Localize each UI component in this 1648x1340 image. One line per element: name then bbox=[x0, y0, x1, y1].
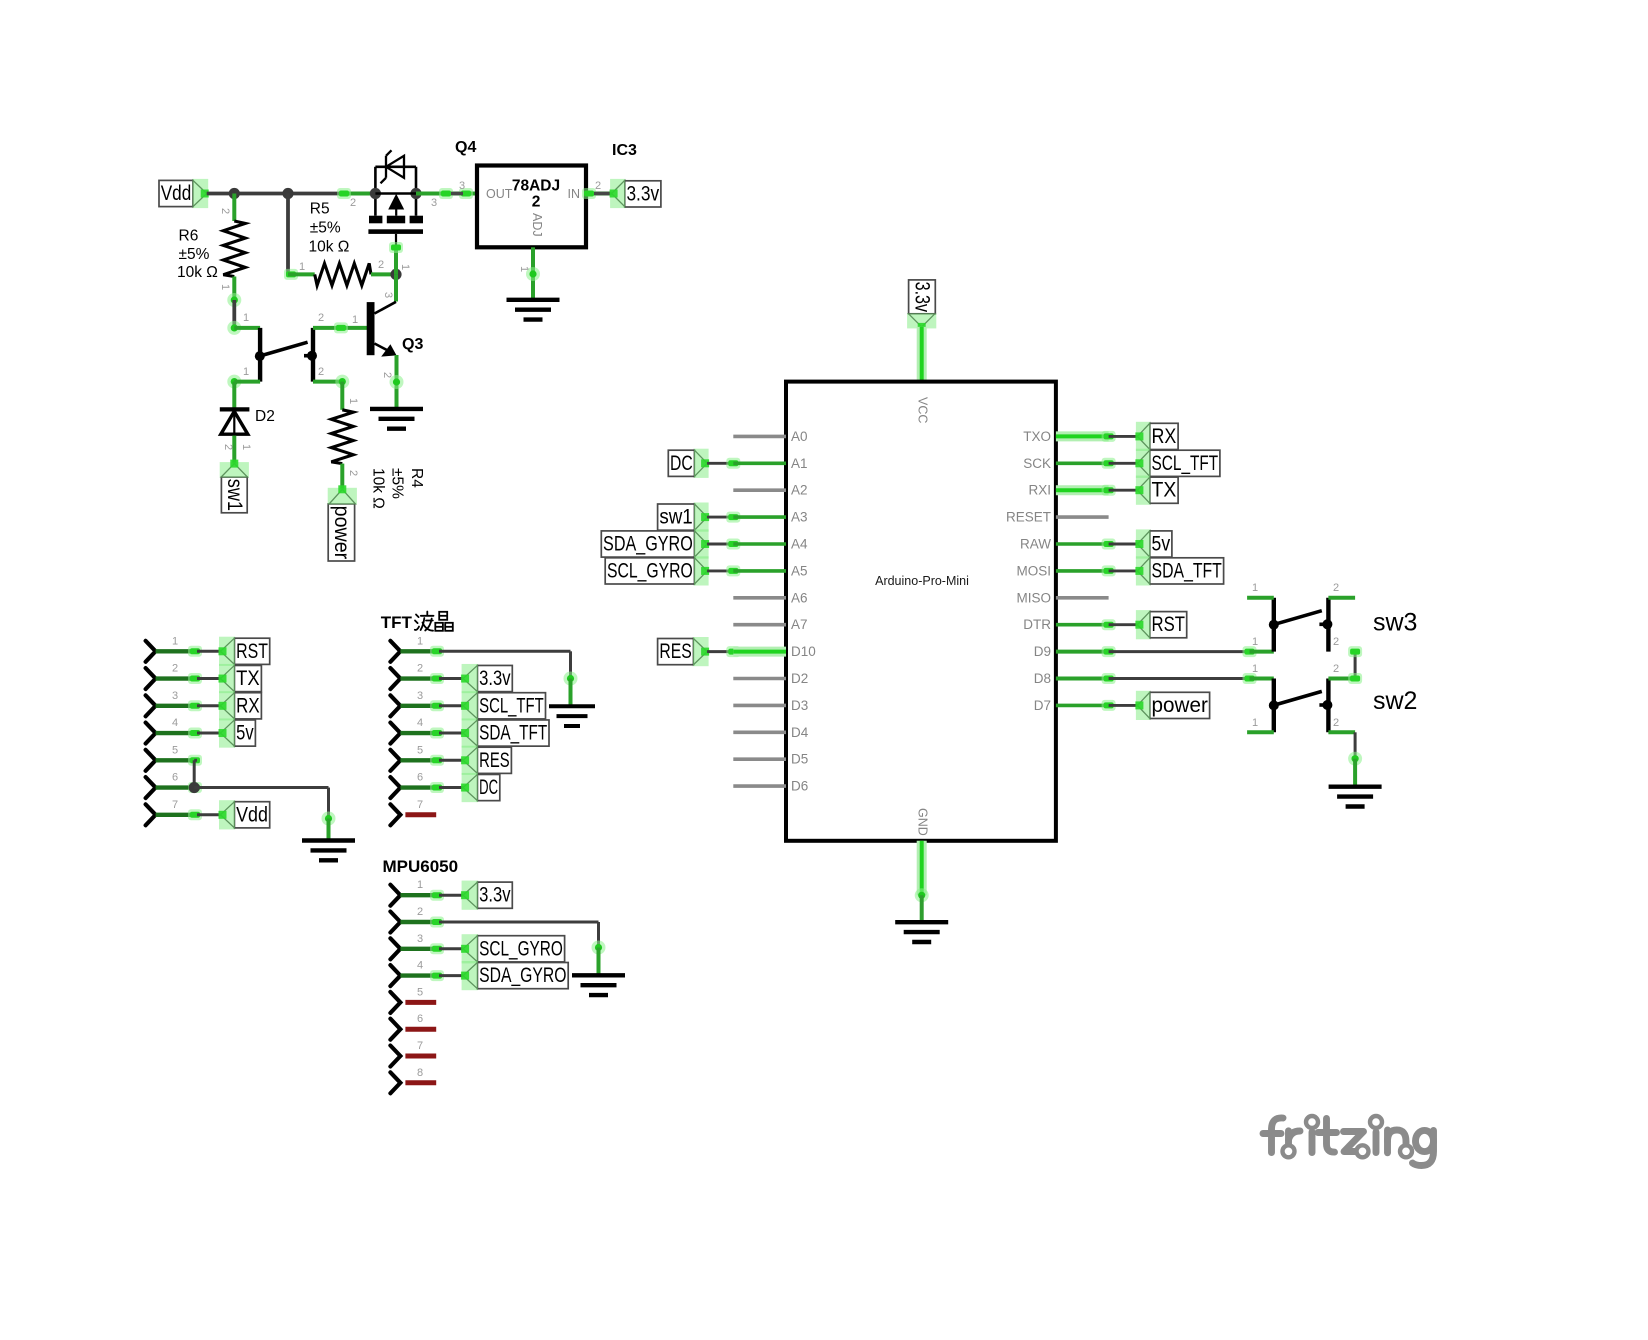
ground U1 GND bbox=[895, 920, 948, 924]
wire D8 to sw2 bbox=[1056, 677, 1109, 681]
resistor R6 bbox=[232, 194, 236, 222]
sw2 stubs bbox=[1328, 677, 1355, 681]
svg-text:5v: 5v bbox=[1152, 533, 1171, 556]
svg-text:SCL_TFT: SCL_TFT bbox=[1152, 452, 1219, 475]
svg-text:2: 2 bbox=[318, 366, 324, 378]
TFT pin 7 bbox=[390, 804, 400, 825]
svg-text:1: 1 bbox=[219, 284, 231, 290]
svg-text:2: 2 bbox=[222, 444, 234, 450]
resistor R4 bbox=[340, 382, 344, 410]
svg-text:DC: DC bbox=[479, 776, 498, 799]
svg-text:1: 1 bbox=[352, 314, 358, 326]
net label RES (U1 left) bbox=[658, 639, 694, 665]
net label SDA_TFT (U1 right) bbox=[1056, 569, 1109, 573]
svg-text:SDA_GYRO: SDA_GYRO bbox=[479, 964, 566, 987]
svg-text:VCC: VCC bbox=[916, 397, 930, 423]
switch sw2 pushbutton bbox=[1272, 679, 1276, 733]
svg-text:2: 2 bbox=[350, 197, 356, 209]
svg-text:OUT: OUT bbox=[486, 187, 513, 201]
svg-text:A3: A3 bbox=[791, 510, 808, 525]
svg-text:2: 2 bbox=[219, 208, 231, 214]
svg-text:A0: A0 bbox=[791, 429, 808, 444]
svg-text:sw1: sw1 bbox=[223, 479, 246, 511]
net label DC (U1 left) bbox=[668, 450, 694, 476]
svg-text:A1: A1 bbox=[791, 456, 808, 471]
svg-text:2: 2 bbox=[318, 312, 324, 324]
svg-text:SCL_GYRO: SCL_GYRO bbox=[607, 559, 693, 582]
net label sw1 (U1 left) bbox=[658, 504, 695, 530]
U1 unconnected left pins bbox=[733, 435, 786, 439]
svg-text:RX: RX bbox=[236, 694, 260, 717]
svg-text:SDA_TFT: SDA_TFT bbox=[1152, 559, 1222, 582]
net label RX (J1) bbox=[197, 704, 221, 707]
svg-text:1: 1 bbox=[240, 444, 252, 450]
TFT pin 2 bbox=[390, 668, 400, 689]
svg-text:3: 3 bbox=[431, 197, 437, 209]
svg-text:IC3: IC3 bbox=[612, 142, 637, 159]
svg-text:5v: 5v bbox=[236, 722, 254, 745]
svg-text:D2: D2 bbox=[791, 671, 808, 686]
svg-text:power: power bbox=[1152, 694, 1208, 717]
net label 3.3v (VCC) bbox=[909, 280, 936, 314]
svg-text:2: 2 bbox=[1333, 636, 1339, 648]
svg-text:2: 2 bbox=[417, 906, 423, 918]
svg-text:RESET: RESET bbox=[1006, 510, 1051, 525]
ground IC3 bbox=[507, 298, 560, 302]
transistor Q3 NPN bbox=[394, 274, 398, 301]
svg-text:D8: D8 bbox=[1034, 671, 1051, 686]
svg-text:RAW: RAW bbox=[1020, 537, 1051, 552]
transistor Q4 (P-MOSFET with zener) bbox=[375, 166, 416, 169]
svg-text:TFT: TFT bbox=[381, 613, 413, 632]
CJK glyph: 晶 bbox=[435, 612, 453, 631]
net label TX (U1 right) bbox=[1056, 485, 1109, 495]
regulator IC3 78ADJ bbox=[477, 166, 586, 248]
svg-text:1: 1 bbox=[1252, 582, 1258, 594]
svg-text:D3: D3 bbox=[791, 698, 808, 713]
svg-text:7: 7 bbox=[417, 1040, 423, 1052]
net label DC (TFT) bbox=[439, 786, 463, 789]
svg-text:7: 7 bbox=[172, 799, 178, 811]
wire IC3 ADJ to ground bbox=[531, 247, 535, 299]
svg-text:2: 2 bbox=[378, 259, 384, 271]
svg-text:5: 5 bbox=[172, 744, 178, 756]
svg-text:sw1: sw1 bbox=[659, 506, 692, 529]
svg-text:1: 1 bbox=[1252, 717, 1258, 729]
svg-text:10k Ω: 10k Ω bbox=[370, 468, 387, 509]
svg-text:4: 4 bbox=[417, 717, 423, 729]
MPU6050 pin 4 bbox=[390, 965, 400, 986]
wire MPU pin2 to ground bbox=[439, 921, 599, 924]
net label power (U1 right) bbox=[1056, 704, 1109, 708]
svg-text:4: 4 bbox=[172, 717, 178, 729]
wire 3.3v to VCC bbox=[917, 327, 927, 382]
svg-text:D10: D10 bbox=[791, 644, 816, 659]
svg-text:±5%: ±5% bbox=[310, 220, 341, 237]
svg-text:2: 2 bbox=[347, 470, 359, 476]
svg-text:D6: D6 bbox=[791, 779, 808, 794]
ground sw2 bbox=[1329, 785, 1382, 789]
TFT pin 4 bbox=[390, 723, 400, 744]
wire sw3 to sw2 bbox=[1354, 652, 1357, 679]
switch sw1 pushbutton bbox=[227, 321, 241, 335]
net label 5v (J1) bbox=[197, 732, 221, 735]
wire U1 GND to ground bbox=[917, 841, 927, 896]
svg-text:D5: D5 bbox=[791, 752, 808, 767]
svg-text:RST: RST bbox=[1152, 613, 1186, 636]
net label 3.3v (TFT) bbox=[439, 677, 463, 680]
net label RST (J1) bbox=[197, 650, 221, 653]
net label SDA_GYRO (U1 left) bbox=[601, 531, 694, 557]
wire R6 to sw1 bbox=[232, 300, 236, 328]
switch sw3 pushbutton bbox=[1272, 598, 1276, 652]
svg-text:ADJ: ADJ bbox=[530, 213, 544, 237]
svg-text:3: 3 bbox=[417, 933, 423, 945]
wire Vdd to Q4 gate rail bbox=[207, 192, 376, 196]
CJK glyph: 液 bbox=[415, 612, 434, 631]
fritzing logo bbox=[1263, 1118, 1434, 1166]
svg-text:10k Ω: 10k Ω bbox=[309, 239, 350, 256]
svg-text:DC: DC bbox=[670, 452, 693, 475]
J1 pin 6 bbox=[146, 777, 156, 798]
TFT pin 3 bbox=[390, 695, 400, 716]
net label SCL_GYRO (MPU6050) bbox=[439, 947, 463, 950]
wire IC3 IN to 3.3v label bbox=[586, 192, 612, 196]
net label SCL_TFT (U1 right) bbox=[1056, 461, 1109, 465]
svg-text:1: 1 bbox=[243, 366, 249, 378]
svg-text:2: 2 bbox=[381, 372, 393, 378]
wire sw1 to R4 bbox=[313, 380, 342, 384]
net label RES (TFT) bbox=[439, 759, 463, 762]
net label sw1 bbox=[221, 477, 247, 513]
wire sw1 to Q3 base bbox=[313, 326, 370, 330]
MPU6050 pin 8 bbox=[390, 1072, 400, 1093]
net label Vdd bbox=[159, 180, 193, 206]
J1 pin 7 bbox=[146, 804, 156, 825]
svg-text:8: 8 bbox=[417, 1067, 423, 1079]
svg-text:5: 5 bbox=[417, 744, 423, 756]
svg-text:7: 7 bbox=[417, 799, 423, 811]
net label power bbox=[328, 504, 354, 561]
svg-text:R4: R4 bbox=[408, 468, 425, 488]
svg-text:Q4: Q4 bbox=[455, 139, 476, 156]
TFT pin 6 bbox=[390, 777, 400, 798]
svg-text:TX: TX bbox=[1152, 479, 1177, 502]
svg-text:3: 3 bbox=[172, 690, 178, 702]
svg-text:TX: TX bbox=[236, 667, 260, 690]
svg-text:1: 1 bbox=[299, 261, 305, 273]
svg-text:RES: RES bbox=[479, 749, 510, 772]
J1 pin 1 bbox=[146, 641, 156, 662]
IC U1 Arduino-Pro-Mini body bbox=[786, 382, 1056, 841]
svg-text:D2: D2 bbox=[255, 408, 275, 425]
junction node Vdd/R6 bbox=[229, 188, 240, 199]
junction node Vdd/R5 bbox=[282, 188, 293, 199]
svg-text:A6: A6 bbox=[791, 590, 808, 605]
svg-text:3: 3 bbox=[417, 690, 423, 702]
svg-text:sw2: sw2 bbox=[1373, 687, 1417, 715]
svg-text:SDA_GYRO: SDA_GYRO bbox=[603, 533, 693, 556]
svg-text:1: 1 bbox=[347, 398, 359, 404]
net label RX (U1 right) bbox=[1056, 431, 1109, 441]
svg-text:D4: D4 bbox=[791, 725, 809, 740]
wire Q4 to IC3 OUT bbox=[416, 192, 477, 196]
wire Q3 emitter to ground bbox=[395, 355, 399, 409]
svg-text:Vdd: Vdd bbox=[236, 803, 268, 826]
svg-text:Vdd: Vdd bbox=[161, 182, 192, 205]
svg-text:A4: A4 bbox=[791, 537, 808, 552]
svg-text:A7: A7 bbox=[791, 617, 808, 632]
TFT pin 5 bbox=[390, 750, 400, 771]
svg-text:±5%: ±5% bbox=[389, 468, 406, 499]
svg-text:4: 4 bbox=[417, 960, 423, 972]
wire J1 pin5/pin6 to ground bbox=[194, 759, 197, 762]
svg-text:2: 2 bbox=[1333, 663, 1339, 675]
wire TFT pin1 to ground bbox=[439, 650, 571, 653]
svg-text:2: 2 bbox=[1333, 582, 1339, 594]
svg-text:TXO: TXO bbox=[1023, 429, 1051, 444]
svg-text:D9: D9 bbox=[1034, 644, 1051, 659]
J1 pin 3 bbox=[146, 695, 156, 716]
net label SDA_TFT (TFT) bbox=[439, 732, 463, 735]
J1 pin 2 bbox=[146, 668, 156, 689]
svg-text:SCL_TFT: SCL_TFT bbox=[479, 694, 544, 717]
svg-text:A2: A2 bbox=[791, 483, 808, 498]
U1 unconnected right pins bbox=[1056, 515, 1109, 519]
svg-text:2: 2 bbox=[417, 663, 423, 675]
svg-text:1: 1 bbox=[518, 266, 530, 272]
svg-text:6: 6 bbox=[417, 772, 423, 784]
svg-text:1: 1 bbox=[399, 264, 411, 270]
diode D2 bbox=[220, 407, 250, 411]
svg-text:6: 6 bbox=[417, 1013, 423, 1025]
resistor R5 bbox=[284, 269, 298, 280]
svg-text:RXI: RXI bbox=[1028, 483, 1051, 498]
svg-text:3.3v: 3.3v bbox=[910, 282, 933, 313]
J1 pin 5 bbox=[146, 750, 156, 771]
svg-text:1: 1 bbox=[417, 879, 423, 891]
sw3 top stubs bbox=[1247, 596, 1274, 600]
svg-text:3: 3 bbox=[459, 180, 465, 192]
svg-text:2: 2 bbox=[532, 194, 541, 211]
svg-text:3.3v: 3.3v bbox=[626, 182, 659, 205]
net label 5v (U1 right) bbox=[1056, 542, 1109, 546]
net label 3.3v (MPU6050) bbox=[439, 894, 463, 897]
ground MPU6050 bbox=[572, 973, 625, 977]
svg-text:3.3v: 3.3v bbox=[479, 667, 511, 690]
svg-text:RES: RES bbox=[659, 640, 691, 663]
svg-text:A5: A5 bbox=[791, 563, 808, 578]
MPU6050 pin 2 bbox=[390, 912, 400, 933]
MPU6050 pin 1 bbox=[390, 885, 400, 906]
svg-text:Q3: Q3 bbox=[402, 336, 423, 353]
net label TX (J1) bbox=[197, 677, 221, 680]
svg-text:MISO: MISO bbox=[1016, 590, 1051, 605]
net label SCL_TFT (TFT) bbox=[439, 704, 463, 707]
net label 3.3v (IC3) bbox=[625, 181, 661, 207]
J1 pin 4 bbox=[146, 723, 156, 744]
svg-text:MPU6050: MPU6050 bbox=[383, 857, 459, 876]
svg-text:78ADJ: 78ADJ bbox=[512, 178, 560, 195]
svg-text:R5: R5 bbox=[310, 201, 330, 218]
MPU6050 pin 5 bbox=[390, 992, 400, 1013]
svg-text:SCL_GYRO: SCL_GYRO bbox=[479, 937, 563, 960]
ground TFT bbox=[549, 704, 595, 708]
svg-text:±5%: ±5% bbox=[179, 246, 210, 263]
wire sw1 to D2 bbox=[227, 375, 241, 389]
svg-text:1: 1 bbox=[243, 312, 249, 324]
junction node R5/Q4 gate/Q3 collector bbox=[390, 269, 401, 280]
MPU6050 pin 6 bbox=[390, 1019, 400, 1040]
svg-text:1: 1 bbox=[1252, 663, 1258, 675]
svg-text:RX: RX bbox=[1152, 425, 1177, 448]
svg-text:DTR: DTR bbox=[1023, 617, 1051, 632]
svg-text:D7: D7 bbox=[1034, 698, 1051, 713]
net label SDA_GYRO (MPU6050) bbox=[439, 974, 463, 977]
MPU6050 pin 3 bbox=[390, 938, 400, 959]
wire Vdd junction to R5 bbox=[286, 194, 290, 275]
ground Q3 bbox=[370, 407, 423, 411]
ground J1 bbox=[302, 838, 355, 842]
MPU6050 pin 7 bbox=[390, 1046, 400, 1067]
svg-text:2: 2 bbox=[595, 180, 601, 192]
wire D9 to sw3 bbox=[1056, 650, 1109, 654]
svg-text:3.3v: 3.3v bbox=[479, 884, 511, 907]
svg-text:2: 2 bbox=[172, 663, 178, 675]
svg-text:R6: R6 bbox=[179, 228, 199, 245]
TFT pin 1 bbox=[390, 641, 400, 662]
svg-text:GND: GND bbox=[916, 808, 930, 836]
net label RST (U1 right) bbox=[1056, 623, 1109, 627]
svg-text:Arduino-Pro-Mini: Arduino-Pro-Mini bbox=[875, 574, 969, 588]
net label SCL_GYRO (U1 left) bbox=[605, 558, 694, 584]
svg-text:SDA_TFT: SDA_TFT bbox=[479, 722, 547, 745]
svg-text:10k Ω: 10k Ω bbox=[177, 264, 218, 281]
svg-text:6: 6 bbox=[172, 772, 178, 784]
svg-text:5: 5 bbox=[417, 986, 423, 998]
svg-text:IN: IN bbox=[568, 187, 581, 201]
svg-text:RST: RST bbox=[236, 640, 268, 663]
svg-text:3: 3 bbox=[382, 292, 394, 298]
svg-text:1: 1 bbox=[1252, 636, 1258, 648]
svg-text:power: power bbox=[330, 506, 353, 560]
svg-text:2: 2 bbox=[1333, 717, 1339, 729]
svg-text:MOSI: MOSI bbox=[1016, 563, 1051, 578]
svg-text:sw3: sw3 bbox=[1373, 609, 1417, 637]
wire sw2 to ground bbox=[1354, 732, 1357, 757]
svg-text:1: 1 bbox=[417, 635, 423, 647]
svg-text:SCK: SCK bbox=[1023, 456, 1051, 471]
net label Vdd (J1) bbox=[197, 813, 221, 816]
svg-text:1: 1 bbox=[172, 635, 178, 647]
